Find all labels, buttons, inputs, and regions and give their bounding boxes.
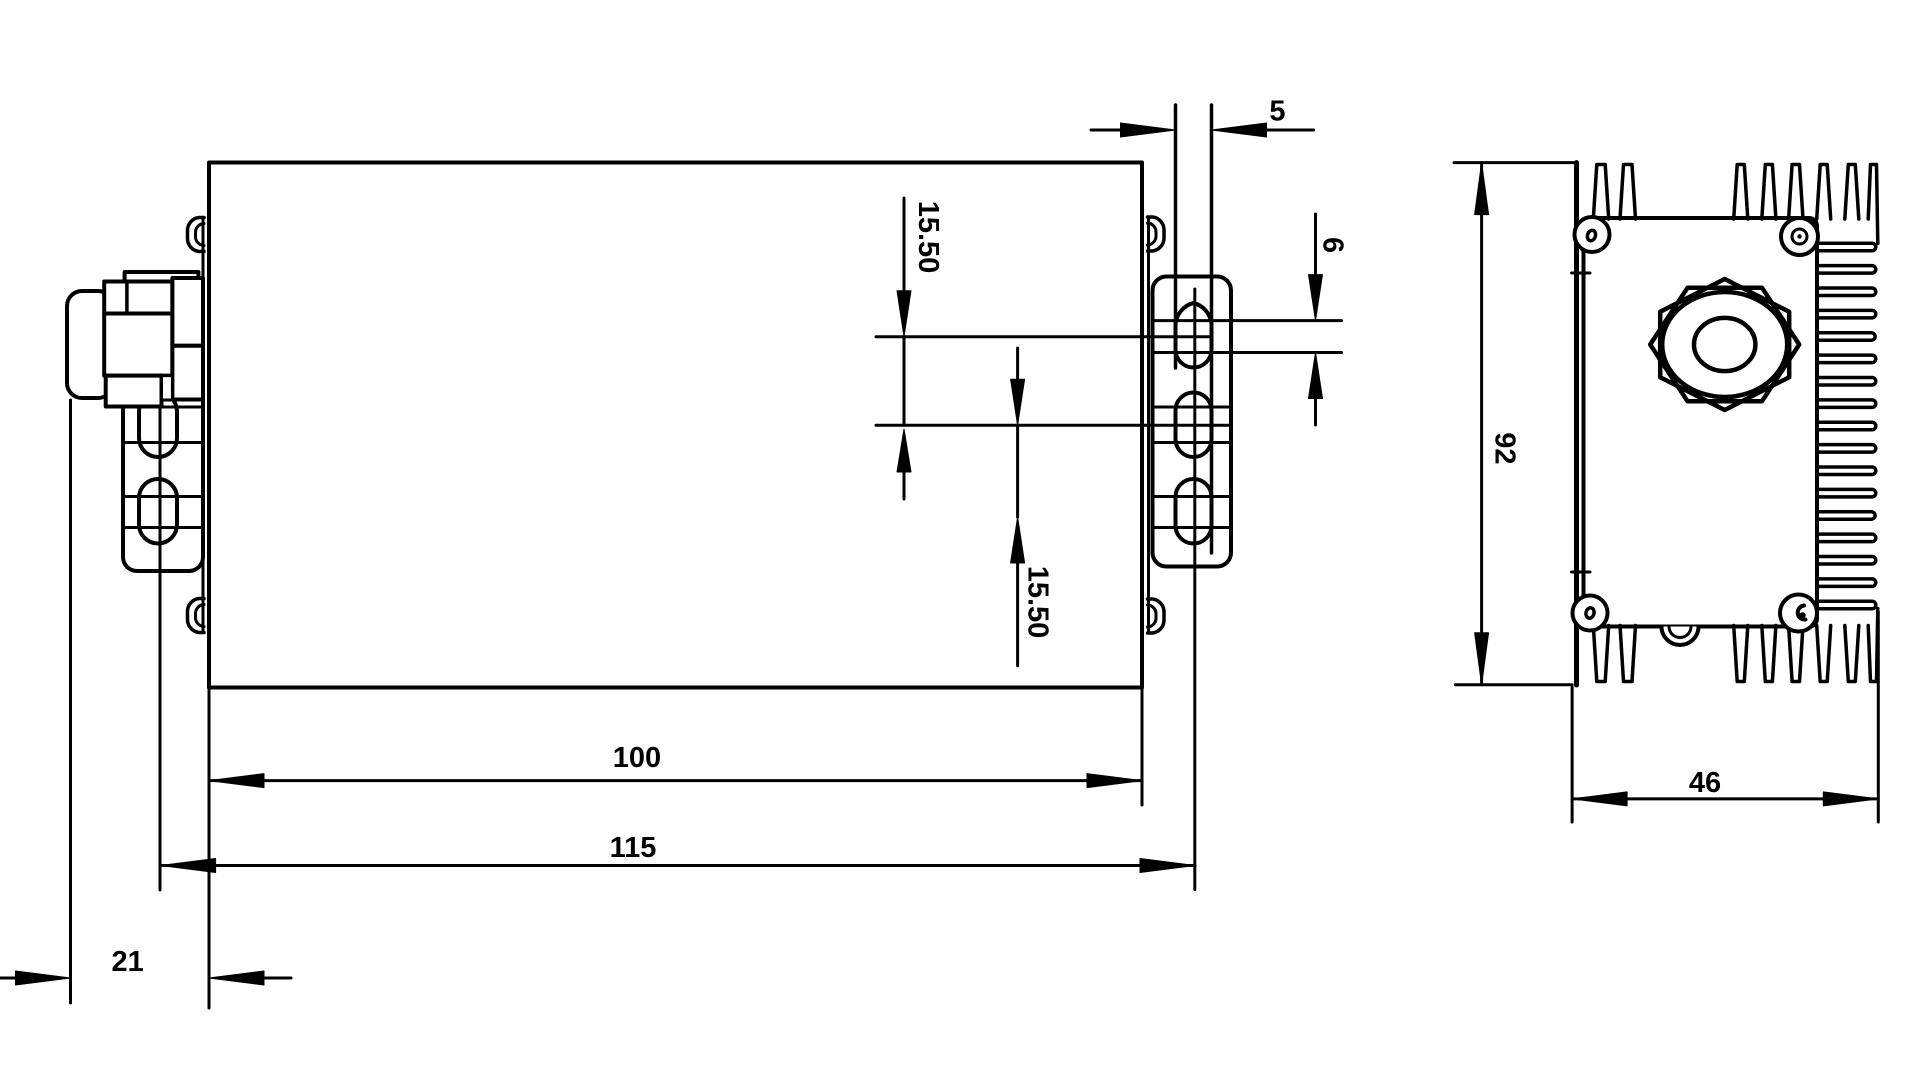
screw bottom-right xyxy=(1780,595,1817,632)
gland nut body circle xyxy=(1662,292,1787,397)
dim 15.50a extension line xyxy=(876,335,1212,338)
svg-text:5: 5 xyxy=(1269,96,1285,128)
dimension 92 xyxy=(1475,163,1521,685)
main enclosure box xyxy=(209,163,1142,688)
end face plate xyxy=(1584,218,1818,627)
right bracket slot S2 xyxy=(1153,393,1232,458)
dimension 15.50b xyxy=(1011,348,1054,666)
connector body lower block xyxy=(106,376,162,407)
right fin bars xyxy=(1818,243,1876,609)
dim 21 right extension (box edge) xyxy=(208,805,211,1008)
left mounting bracket plate xyxy=(123,277,203,571)
cable gland nut (two overlapping hexagons) xyxy=(1650,279,1799,410)
dimension 6 xyxy=(1309,214,1349,425)
svg-text:46: 46 xyxy=(1689,767,1721,799)
clip bump bottom-left xyxy=(187,599,204,633)
cable gland nut (left rounded cap) xyxy=(67,291,113,398)
svg-text:100: 100 xyxy=(613,742,661,774)
dimension 21 xyxy=(0,946,291,985)
left end seam line xyxy=(202,218,205,632)
dim 21 extension line xyxy=(69,400,72,1003)
top fin row xyxy=(1593,165,1878,244)
dim 100 extension lines xyxy=(209,688,1142,806)
dim 15.50b extension line xyxy=(876,424,1231,427)
connector top cap plate xyxy=(125,272,199,282)
clip bump bottom-right xyxy=(1148,599,1165,633)
right bracket slot centerline xyxy=(1193,289,1196,890)
screw top-left xyxy=(1575,217,1610,252)
right end seam line xyxy=(1147,217,1150,633)
connector bottom step xyxy=(162,376,173,400)
connector body middle block xyxy=(104,314,172,376)
right mounting bracket plate xyxy=(1153,277,1232,567)
screw bottom-left xyxy=(1573,596,1608,631)
dimension 115 xyxy=(161,832,1195,873)
dimension 46 xyxy=(1572,767,1878,806)
dim 92 extension lines xyxy=(1454,163,1577,685)
face seam tick upper xyxy=(1572,272,1591,275)
screw top-right xyxy=(1781,218,1818,255)
svg-text:6: 6 xyxy=(1317,237,1349,253)
gland hole xyxy=(1694,318,1755,371)
bottom fin row xyxy=(1593,609,1878,682)
face seam tick lower xyxy=(1572,571,1591,574)
dim 6 extension lines xyxy=(1153,321,1342,353)
left bracket slot S3 xyxy=(123,479,203,543)
right bracket slot S3 xyxy=(1153,479,1232,544)
dimension 100 xyxy=(209,742,1142,788)
clip bump top-left xyxy=(187,218,204,252)
left bracket slot S2 xyxy=(123,393,203,457)
right bracket slot S1 (pointed arch top) xyxy=(1176,303,1212,368)
svg-text:92: 92 xyxy=(1489,432,1521,464)
svg-text:115: 115 xyxy=(610,832,657,864)
clip bump top-right xyxy=(1148,217,1165,251)
connector right column lower xyxy=(172,346,203,400)
svg-text:15.50: 15.50 xyxy=(1022,566,1054,639)
dim 46 extension lines xyxy=(1572,612,1878,822)
svg-text:15.50: 15.50 xyxy=(912,201,944,274)
svg-text:21: 21 xyxy=(111,946,143,978)
connector right column upper xyxy=(172,278,203,346)
left bracket slot S1 (hidden behind connector) xyxy=(139,303,177,368)
dim 5 extension line left xyxy=(1174,105,1178,368)
left bracket slot centerline xyxy=(159,300,162,890)
connector nut flange line xyxy=(125,282,129,314)
dimension 5 xyxy=(1091,96,1314,138)
dimension 15.50a xyxy=(897,198,944,499)
connector body upper band xyxy=(104,282,172,314)
heatsink left edge xyxy=(1574,163,1579,685)
bottom cable bushing bump xyxy=(1662,627,1699,646)
dim 5 extension line right xyxy=(1210,105,1214,553)
